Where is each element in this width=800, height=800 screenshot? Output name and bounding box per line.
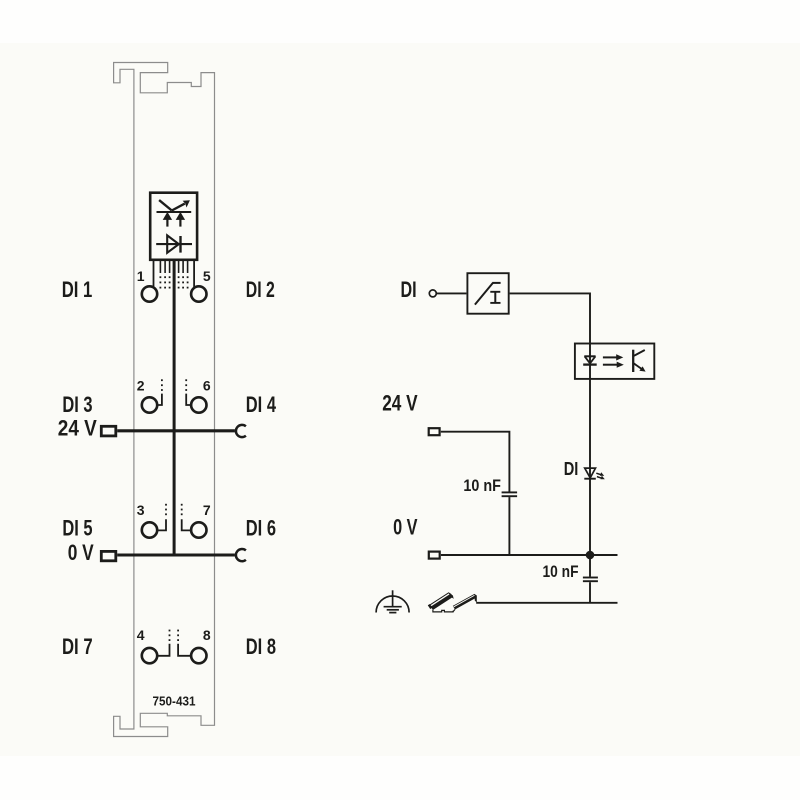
svg-text:DI 2: DI 2: [246, 277, 275, 302]
capacitor C1: [502, 491, 517, 493]
terminal 2: [142, 397, 157, 412]
LED symbol bar: [157, 211, 192, 213]
filter I symbol: [494, 292, 496, 304]
24V rail wire: [117, 429, 235, 432]
svg-text:DI: DI: [564, 459, 579, 479]
svg-text:2: 2: [137, 377, 145, 393]
0V rail wire: [117, 553, 235, 556]
indicator backslash stroke: [159, 200, 172, 210]
svg-text:5: 5: [203, 268, 211, 284]
LED indicator box: [150, 193, 197, 260]
wire C2 to ground rail: [589, 582, 591, 603]
svg-text:DI 5: DI 5: [62, 516, 92, 541]
svg-text:1: 1: [137, 268, 145, 284]
svg-text:DI 3: DI 3: [62, 392, 92, 417]
0V power jumper contact: [236, 549, 246, 561]
diode symbol in LED box: [156, 243, 192, 245]
filter ramp symbol: [475, 283, 493, 305]
svg-text:DI 7: DI 7: [62, 634, 93, 659]
svg-text:0 V: 0 V: [68, 540, 94, 565]
indicator arrow stroke: [172, 204, 185, 211]
LED 1 arrow up: [163, 212, 172, 220]
svg-text:7: 7: [203, 502, 211, 518]
terminal 8 stub wire: [178, 644, 190, 656]
svg-text:8: 8: [203, 627, 211, 643]
svg-text:DI 1: DI 1: [62, 277, 93, 302]
svg-text:24 V: 24 V: [58, 416, 97, 441]
terminal 4: [142, 648, 157, 663]
DIN rail symbol: [428, 593, 477, 612]
ground rail wire: [476, 602, 617, 604]
DI input terminal: [429, 290, 436, 297]
phototransistor Q1: [632, 350, 634, 372]
optocoupler light arrow upper: [603, 356, 617, 358]
wire C1 to 0V rail: [508, 497, 510, 555]
LED 2 arrow up: [176, 212, 185, 220]
terminal 3 stub wire: [158, 519, 166, 530]
terminal 8: [191, 648, 206, 663]
svg-text:10 nF: 10 nF: [463, 476, 501, 495]
svg-text:DI 6: DI 6: [246, 516, 276, 541]
svg-text:0 V: 0 V: [393, 514, 418, 539]
0V rail wire right: [441, 554, 618, 556]
optocoupler LED: [584, 355, 595, 357]
0V field terminal square: [101, 551, 116, 560]
0V supply terminal square: [429, 552, 440, 559]
24V field terminal square: [101, 426, 116, 436]
optocoupler light arrow lower: [603, 364, 618, 366]
svg-text:6: 6: [203, 377, 211, 393]
wire filter to optocoupler: [510, 293, 590, 555]
24V power jumper contact: [236, 425, 246, 437]
LED light arrow 1: [596, 473, 601, 475]
wire 24V to capacitor C1: [441, 432, 510, 492]
24V supply terminal square: [429, 428, 440, 435]
terminal 3: [142, 522, 157, 537]
module outline: [114, 63, 215, 737]
svg-text:10 nF: 10 nF: [543, 562, 579, 581]
terminal 4 stub wire: [158, 644, 169, 656]
svg-text:750-431: 750-431: [153, 694, 196, 709]
input filter box U2: [467, 273, 508, 314]
wire junction to C2: [589, 555, 591, 577]
wire DI to filter: [437, 292, 467, 294]
optocoupler box U1: [575, 344, 654, 379]
svg-text:DI 4: DI 4: [246, 392, 277, 417]
functional earth symbol: [392, 590, 394, 607]
internal bus wire: [173, 260, 176, 555]
svg-text:DI: DI: [401, 277, 417, 302]
svg-text:24 V: 24 V: [382, 391, 418, 416]
wire ribbon below LED box: [153, 260, 155, 287]
svg-text:DI 8: DI 8: [246, 634, 276, 659]
svg-text:4: 4: [137, 627, 145, 643]
ribbon dots: [160, 276, 189, 288]
capacitor C2: [583, 577, 598, 579]
terminal 2 stub wire: [158, 394, 162, 405]
terminal 7: [191, 522, 206, 537]
terminal 6 stub wire: [186, 394, 190, 405]
terminal 6: [191, 397, 206, 412]
status LED D1: [585, 468, 596, 478]
terminal 5: [191, 286, 206, 301]
terminal 7 stub wire: [182, 519, 190, 530]
terminal 1: [142, 286, 157, 301]
svg-text:3: 3: [137, 502, 145, 518]
junction node: [586, 551, 595, 560]
LED light arrow 2: [597, 477, 602, 479]
